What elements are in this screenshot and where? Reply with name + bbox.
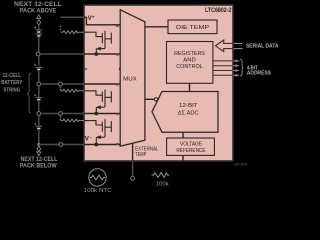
battery cell B12 — [36, 29, 42, 31]
svg-text:TEMP: TEMP — [135, 152, 146, 158]
dotted branch to C1 pin wire — [60, 116, 61, 117]
node C1 mid terminal — [59, 112, 63, 116]
arrow to next pack above — [37, 15, 41, 19]
resistor R3 100k — [152, 173, 170, 178]
wire address bit 2 — [213, 65, 233, 67]
block REGISTERS AND CONTROL — [167, 42, 213, 84]
wire V+ internal to MUX — [86, 17, 120, 24]
wire C1 internal to MUX — [84, 113, 120, 115]
wire string to C12 terminal — [38, 37, 40, 52]
junction dot V- node — [37, 143, 40, 146]
wire omitted-cells stub at MUX — [119, 68, 122, 71]
plus mark cell B11 — [34, 64, 36, 66]
svg-text:LTC6802-2: LTC6802-2 — [205, 7, 232, 14]
node C12 terminal — [36, 52, 40, 56]
wire REGISTERS to ADC — [189, 83, 191, 91]
resistor R12 — [61, 31, 85, 34]
battery cell B1 — [36, 125, 42, 127]
junction dot Q3 source node — [94, 143, 98, 147]
svg-text:100k NTC: 100k NTC — [84, 188, 112, 194]
pin marks at MUX inputs — [116, 25, 118, 145]
wire string below C1 — [38, 115, 40, 125]
dotted continuation V+ to C12 pin wire — [60, 26, 61, 27]
arrow Q3 source — [96, 135, 101, 139]
wire C12 tap to chip — [40, 53, 84, 55]
wire C2 tap to chip — [41, 83, 59, 85]
svg-text:100k: 100k — [156, 181, 169, 187]
wire string to C2 terminal — [38, 70, 40, 82]
wire V- tap to chip — [39, 144, 59, 146]
plus mark cell B12 — [34, 27, 36, 29]
block MUX — [120, 10, 145, 147]
wire C0/V- internal to MUX — [84, 144, 120, 146]
junction dot Q2 source node — [94, 112, 98, 116]
svg-text:BATTERY: BATTERY — [1, 80, 22, 86]
junction dot Q1 source node — [94, 52, 98, 56]
battery cell B2 — [36, 97, 42, 99]
svg-text:STRING: STRING — [3, 87, 20, 93]
svg-text:12-CELL: 12-CELL — [3, 73, 22, 79]
wire C2 internal to MUX — [84, 83, 120, 85]
transistor Q2 discharge MOSFET — [84, 89, 111, 113]
IC U1 LTC6802-2 body — [84, 5, 233, 161]
wire omitted-cells stub left — [84, 68, 87, 70]
block 12-BIT delta-sigma ADC — [152, 92, 218, 133]
node C2 string terminal — [37, 82, 41, 86]
wire MUX to DIE TEMP — [145, 26, 168, 28]
svg-text:ADDRESS: ADDRESS — [247, 71, 272, 77]
svg-text:AND: AND — [183, 58, 196, 64]
node external temp terminal — [131, 176, 135, 180]
node C1 string terminal — [37, 112, 41, 116]
serial data port arrow — [216, 40, 243, 52]
arrow Q1 source — [96, 47, 101, 51]
wire MUX to ADC input — [145, 98, 154, 100]
arrow Q2 source — [96, 105, 101, 109]
svg-text:12-BIT: 12-BIT — [179, 103, 198, 109]
transistor Q1 discharge MOSFET — [84, 31, 111, 54]
svg-text:SERIAL DATA: SERIAL DATA — [246, 44, 279, 50]
svg-text:6802 TA01a: 6802 TA01a — [234, 163, 247, 167]
block VOLTAGE REFERENCE — [167, 138, 215, 155]
wire address bit 3 — [213, 60, 233, 62]
wire battery string top — [38, 26, 40, 30]
wire address bit 1 — [213, 70, 233, 72]
svg-text:DIE TEMP: DIE TEMP — [176, 25, 209, 31]
wire address bit 0 — [213, 74, 233, 76]
svg-text:REFERENCE: REFERENCE — [176, 148, 205, 154]
svg-text:MUX: MUX — [123, 77, 137, 83]
svg-text:ΔΣ ADC: ΔΣ ADC — [178, 111, 200, 117]
svg-text:PACK ABOVE: PACK ABOVE — [20, 7, 57, 14]
wire string below C12 — [38, 56, 40, 66]
wire V+ tap — [61, 16, 85, 18]
svg-text:CONTROL: CONTROL — [176, 64, 203, 70]
plus mark cell B1 — [34, 123, 36, 125]
wire C1 tap to chip — [41, 113, 59, 115]
node ADC input terminal — [154, 98, 157, 101]
thermistor RT1 100k NTC — [89, 169, 106, 186]
arrow to next pack below — [37, 146, 41, 151]
wire string below C2 terminal — [38, 86, 40, 97]
svg-text:REGISTERS: REGISTERS — [174, 51, 205, 57]
dotted branch to C2 pin wire — [60, 87, 61, 88]
wire string to C1 terminal — [38, 100, 40, 111]
brace battery string label — [27, 73, 31, 113]
wire ADC to VOLTAGE REFERENCE — [182, 132, 184, 138]
resistor R2 — [61, 89, 85, 92]
resistor R1 — [61, 119, 85, 122]
svg-text:PACK BELOW: PACK BELOW — [20, 162, 57, 169]
wire MUX to external temp pin — [132, 143, 134, 161]
svg-text:VOLTAGE: VOLTAGE — [180, 142, 202, 148]
node C2 mid terminal — [59, 82, 63, 86]
battery cell B11 — [36, 66, 42, 68]
wire VOLTAGE REFERENCE to V- — [182, 155, 184, 161]
transistor Q3 discharge MOSFET — [84, 119, 111, 144]
block DIE TEMP — [168, 20, 217, 34]
wire string to V- node — [38, 129, 40, 146]
wire C11 internal to MUX — [84, 53, 120, 55]
brace address group — [240, 59, 244, 76]
node V- mid terminal — [59, 143, 63, 147]
plus mark cell B2 — [34, 94, 36, 96]
